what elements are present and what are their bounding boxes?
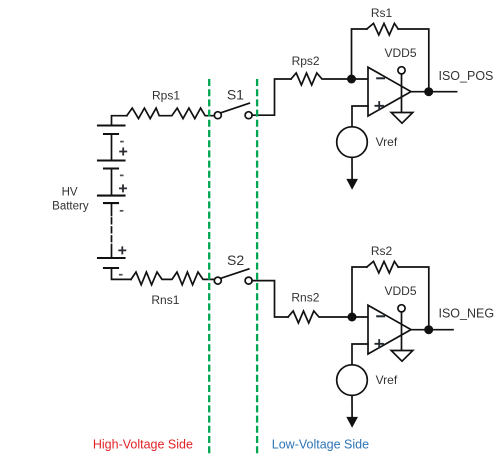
- svg-text:Rs1: Rs1: [371, 6, 393, 20]
- ground arrow Vref (top, filled): [346, 179, 358, 190]
- wire battery top lead: [112, 116, 127, 126]
- resistor Rps2: [291, 73, 368, 85]
- S1 throw contact circle: [245, 112, 252, 119]
- node junction dot U2 output: [424, 325, 433, 334]
- wire Vref to ground arrow (bottom): [351, 395, 353, 419]
- battery polarity plus 2: [120, 185, 126, 191]
- battery polarity tick minus 3: [121, 210, 123, 212]
- S2 pole contact circle: [214, 277, 221, 284]
- battery cell plate short (neg) 1: [104, 133, 118, 135]
- resistor Rs2 (feedback): [367, 261, 398, 273]
- resistor Rns1: [131, 272, 214, 285]
- isolation barrier dashed line left: [208, 79, 210, 455]
- svg-text:VDD5: VDD5: [384, 284, 416, 298]
- svg-text:ISO_NEG: ISO_NEG: [439, 306, 495, 320]
- svg-text:Rs2: Rs2: [371, 244, 393, 258]
- svg-text:ISO_POS: ISO_POS: [439, 69, 494, 83]
- wire Vref to ground arrow: [351, 157, 353, 181]
- wire VDD5 pin through U2 to ground: [401, 312, 403, 351]
- op-amp U2: [368, 305, 411, 354]
- resistor Rns2: [288, 311, 368, 323]
- ground symbol U1 (open triangle): [391, 113, 413, 124]
- resistor Rs1 (feedback): [367, 23, 398, 35]
- U1 body triangle: [368, 67, 411, 116]
- battery B1 (HV Battery): [98, 116, 131, 280]
- label HV Battery: [52, 187, 89, 213]
- svg-text:Rns1: Rns1: [151, 293, 179, 307]
- node junction dot U1 output: [424, 87, 433, 96]
- wire U1 output ISO_POS: [411, 91, 457, 93]
- resistor Rps1: [127, 108, 215, 119]
- wire feedback loop U1: [352, 29, 429, 92]
- svg-text:S2: S2: [227, 252, 244, 268]
- power pin VDD5 (U2): [398, 305, 405, 351]
- battery cell plate long (pos) 1: [98, 124, 125, 126]
- S2 throw contact circle: [245, 277, 252, 284]
- U2 body triangle: [368, 305, 411, 354]
- svg-text:Vref: Vref: [376, 135, 398, 149]
- battery polarity tick minus 1: [121, 141, 123, 143]
- battery cell stem 1-2: [111, 134, 113, 161]
- battery cell plate short (neg) 4: [104, 267, 118, 269]
- svg-text:Vref: Vref: [376, 373, 398, 387]
- wire U1 non-inverting input to Vref: [352, 106, 368, 127]
- S1 pole contact circle: [214, 112, 221, 119]
- wire battery bottom lead: [112, 268, 132, 279]
- battery polarity plus 3: [119, 247, 125, 253]
- battery polarity plus 1: [120, 148, 126, 154]
- wire S1 to Rps2: [252, 79, 291, 115]
- battery stem solid below dashes: [111, 245, 113, 259]
- op-amp U1: [368, 67, 411, 116]
- svg-text:Low-Voltage Side: Low-Voltage Side: [272, 438, 369, 452]
- ground arrow Vref (bottom, filled): [346, 417, 358, 428]
- VDD5 pin circle: [398, 67, 405, 74]
- svg-text:HV: HV: [62, 187, 78, 199]
- svg-text:VDD5: VDD5: [384, 46, 416, 60]
- battery stem solid above dashes: [111, 203, 113, 215]
- U1 non-inverting input sign +: [375, 102, 383, 110]
- isolation barrier dashed line right: [256, 79, 258, 455]
- battery cell plate long (pos) 2: [98, 159, 125, 161]
- voltage source Vref (bottom): [337, 365, 368, 396]
- wire U2 output ISO_NEG: [411, 329, 453, 331]
- battery cell plate short (neg) 2: [104, 167, 118, 169]
- wire VDD5 pin through U1 to ground: [401, 74, 403, 113]
- svg-text:High-Voltage Side: High-Voltage Side: [93, 438, 193, 452]
- U2 non-inverting input sign +: [375, 340, 383, 348]
- svg-text:Rns2: Rns2: [291, 291, 319, 305]
- wire S2 to Rns2: [252, 281, 288, 317]
- battery polarity tick minus 2: [121, 174, 123, 176]
- svg-text:Battery: Battery: [52, 201, 89, 213]
- U1 inverting input sign -: [377, 77, 384, 79]
- switch S2: [214, 269, 252, 284]
- node junction dot U2 inverting input: [348, 313, 357, 322]
- S2 lever (open): [222, 269, 249, 278]
- svg-text:Rps1: Rps1: [152, 89, 180, 103]
- VDD5 pin circle (U2): [398, 305, 405, 312]
- battery polarity tick minus 4: [120, 274, 122, 276]
- battery cell plate long (pos) 4: [98, 257, 125, 259]
- battery cell stem 2-3: [111, 169, 113, 196]
- power pin VDD5 (U1): [398, 67, 405, 113]
- U2 inverting input sign -: [377, 315, 384, 317]
- ground symbol U2 (open triangle): [391, 351, 413, 362]
- wire feedback loop U2: [352, 267, 429, 330]
- switch S1: [214, 103, 252, 119]
- svg-text:S1: S1: [227, 87, 244, 103]
- S1 lever (open): [222, 103, 250, 112]
- battery cell plate short (neg) 3: [104, 202, 118, 204]
- battery stem dashed (omitted cells): [111, 218, 113, 242]
- node junction dot U1 inverting input: [347, 75, 356, 84]
- battery cell plate long (pos) 3: [98, 195, 125, 197]
- svg-text:Rps2: Rps2: [292, 54, 320, 68]
- wire U2 non-inverting input to Vref: [352, 344, 368, 365]
- voltage source Vref (top): [337, 127, 368, 158]
